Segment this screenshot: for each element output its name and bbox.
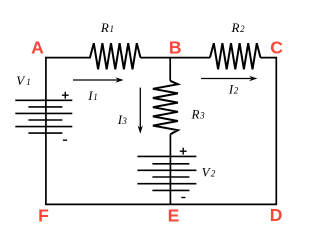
resistor R1	[90, 43, 140, 69]
wire top segment R2 to C	[260, 57, 276, 59]
svg-text:3: 3	[121, 116, 127, 126]
svg-text:R: R	[100, 20, 109, 35]
svg-text:D: D	[270, 205, 283, 225]
current arrow I3	[138, 88, 143, 134]
svg-text:R: R	[191, 107, 200, 122]
battery V2	[137, 156, 196, 190]
wire R3 through V2 to E	[169, 134, 171, 204]
wire right side C to D	[275, 57, 277, 205]
wire bottom F to E to D	[45, 203, 277, 205]
current arrow I2	[201, 76, 257, 81]
svg-text:B: B	[169, 38, 182, 58]
battery V2 minus sign	[181, 197, 185, 199]
resistor R2	[210, 43, 260, 69]
wire top segment A to R1	[46, 57, 91, 59]
svg-text:1: 1	[110, 24, 115, 34]
svg-text:2: 2	[234, 86, 239, 96]
battery V1	[15, 100, 72, 133]
resistor R3	[153, 81, 178, 135]
wire B down to R3	[169, 58, 171, 81]
svg-text:F: F	[38, 206, 49, 226]
svg-text:E: E	[168, 206, 180, 226]
svg-text:A: A	[31, 38, 44, 58]
svg-text:V: V	[16, 73, 26, 88]
svg-text:R: R	[231, 20, 240, 35]
current arrow I1	[73, 77, 124, 82]
svg-text:1: 1	[93, 92, 98, 102]
wire top segment R1 to B to R2	[140, 57, 210, 59]
battery V1 plus sign	[62, 92, 69, 99]
wire left side A to F	[45, 57, 47, 205]
svg-text:3: 3	[199, 111, 205, 121]
battery V2 plus sign	[180, 148, 187, 155]
svg-text:C: C	[270, 38, 283, 58]
battery V1 minus sign	[63, 139, 67, 141]
svg-text:2: 2	[240, 24, 245, 34]
svg-text:1: 1	[26, 77, 31, 87]
svg-text:2: 2	[211, 168, 216, 178]
